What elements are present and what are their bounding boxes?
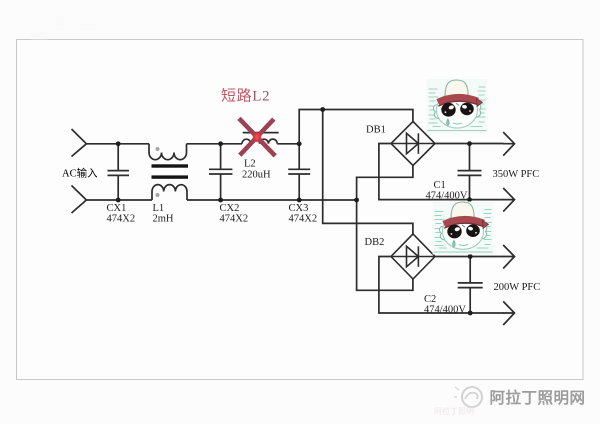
AC input bottom arrow <box>72 186 87 214</box>
junction dot C2 top <box>468 254 473 259</box>
bridge rectifier DB1 <box>391 122 435 166</box>
inductor L2 winding <box>242 139 277 144</box>
junction dot CX1 top <box>116 141 121 146</box>
capacitor CX1 <box>108 144 130 200</box>
svg-text:474/400V: 474/400V <box>424 305 466 316</box>
svg-text:474/400V: 474/400V <box>426 191 468 202</box>
red X cross over L2 <box>239 118 275 155</box>
svg-text:L2: L2 <box>244 159 256 170</box>
inductor L1 bottom winding <box>152 185 187 200</box>
svg-text:DB1: DB1 <box>366 125 386 136</box>
wire: top AC line segment from input arrow to L1 <box>86 143 149 145</box>
faint smudge top <box>31 15 96 39</box>
L2 core/short bar <box>243 132 279 134</box>
border frame <box>17 40 584 380</box>
junction dot CX3 bottom <box>297 198 302 203</box>
output arrow 350W minus <box>503 188 515 212</box>
svg-text:DB2: DB2 <box>365 237 385 248</box>
wire: top AC line segment L2 to CX3 node <box>277 143 299 145</box>
svg-text:短路L2: 短路L2 <box>221 88 270 105</box>
junction dot on top rail <box>320 107 325 112</box>
eyes <box>447 225 461 239</box>
L1 phase dot top <box>156 147 160 151</box>
inductor L1 core bars <box>152 164 189 167</box>
wire: bottom AC line from input arrow to L1 <box>86 199 152 201</box>
wire: DB1 negative out to 350W bottom rail <box>379 144 504 200</box>
junction dot C1 top <box>467 141 472 146</box>
svg-text:CX3: CX3 <box>289 203 309 214</box>
hat dome <box>451 202 474 218</box>
wire: DB2 negative out to 200W bottom rail <box>379 257 504 314</box>
output arrow 350W plus <box>503 132 515 156</box>
eyes <box>441 103 455 117</box>
svg-text:474X2: 474X2 <box>220 214 249 225</box>
output arrow 200W minus <box>503 301 515 325</box>
chin drop <box>453 241 455 247</box>
mascot sticker 1 near DB1 <box>427 79 488 133</box>
svg-text:474X2: 474X2 <box>107 214 136 225</box>
face <box>437 92 478 128</box>
wire: DB1 bottom corner to bottom AC node and down to DB2 bottom corner <box>357 166 413 291</box>
svg-text:220uH: 220uH <box>242 170 271 181</box>
chin drop <box>447 119 449 125</box>
wire: DB1 positive out to 350W top rail <box>435 143 504 145</box>
capacitor CX2 <box>209 144 232 200</box>
junction dot CX1 bottom <box>116 198 121 203</box>
mascot sticker 2 near DB2 <box>433 202 494 255</box>
L1 phase dot bottom <box>156 193 160 197</box>
capacitor C2 <box>458 257 483 314</box>
wire: top rail from CX3 node up and right to DB1 top corner <box>299 110 413 144</box>
hat band <box>444 220 484 225</box>
svg-text:AC输入: AC输入 <box>62 167 98 180</box>
capacitor C1 <box>458 144 482 200</box>
svg-text:2mH: 2mH <box>153 214 174 225</box>
junction dot CX2 top <box>218 141 223 146</box>
face <box>443 214 484 250</box>
inductor L1 common-mode choke top winding <box>149 144 187 160</box>
svg-text:CX2: CX2 <box>220 203 240 214</box>
svg-text:C1: C1 <box>434 180 446 191</box>
watermark logo <box>454 387 482 407</box>
junction dot CX3 top <box>297 141 302 146</box>
output arrow 200W plus <box>503 245 515 269</box>
hat dome <box>445 80 468 96</box>
AC input top arrow <box>72 129 87 157</box>
junction dot C1 bottom <box>467 197 472 202</box>
svg-text:阿拉丁照明网: 阿拉丁照明网 <box>490 388 586 407</box>
svg-text:L1: L1 <box>153 203 165 214</box>
wire: branch from top rail down to DB2 top corner <box>323 110 413 234</box>
wire: DB2 positive out to 200W top rail <box>435 256 504 258</box>
svg-text:阿拉丁照明: 阿拉丁照明 <box>434 406 474 416</box>
wire: top AC line segment L1 to L2 <box>187 143 243 145</box>
svg-text:474X2: 474X2 <box>289 214 318 225</box>
bridge rectifier DB2 <box>391 234 435 279</box>
svg-text:350W PFC: 350W PFC <box>493 169 540 180</box>
svg-text:C2: C2 <box>424 294 436 305</box>
capacitor CX3 <box>288 144 310 200</box>
junction dot CX2 bottom <box>218 198 223 203</box>
svg-text:200W PFC: 200W PFC <box>494 282 541 293</box>
junction dot bottom AC node <box>354 198 359 203</box>
junction dot C2 bottom <box>468 311 473 316</box>
wire: bottom AC line from L1 to node at x356 <box>187 199 357 201</box>
hat band <box>438 98 478 103</box>
svg-text:CX1: CX1 <box>107 203 127 214</box>
